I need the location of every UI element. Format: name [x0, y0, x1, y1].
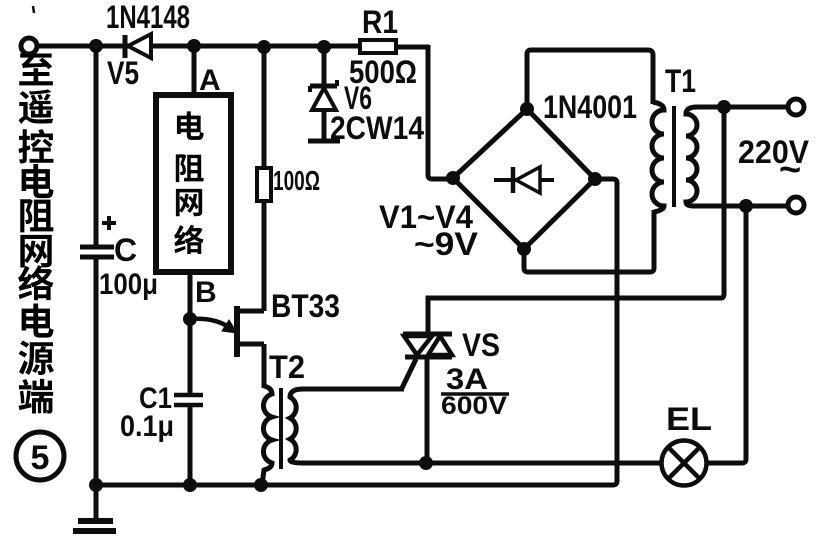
svg-text:T2: T2: [269, 349, 305, 385]
svg-text:1N4001: 1N4001: [543, 89, 637, 125]
svg-text:0.1μ: 0.1μ: [120, 410, 174, 443]
svg-text:2CW14: 2CW14: [330, 110, 424, 146]
svg-text:100μ: 100μ: [99, 268, 158, 301]
svg-text:R1: R1: [362, 4, 398, 40]
svg-text:BT33: BT33: [271, 288, 340, 324]
svg-text:600V: 600V: [441, 392, 507, 420]
svg-text:100Ω: 100Ω: [273, 165, 320, 196]
svg-text:V5: V5: [107, 55, 139, 91]
svg-text:~: ~: [779, 149, 801, 191]
svg-text:C: C: [114, 232, 137, 268]
svg-text:1N4148: 1N4148: [106, 0, 190, 35]
svg-text:T1: T1: [665, 63, 696, 99]
svg-text:5: 5: [31, 439, 50, 477]
svg-text:B: B: [195, 276, 217, 309]
svg-text:VS: VS: [462, 327, 500, 363]
svg-text:EL: EL: [666, 401, 712, 437]
svg-text:A: A: [199, 64, 221, 97]
svg-text:~9V: ~9V: [414, 226, 479, 262]
